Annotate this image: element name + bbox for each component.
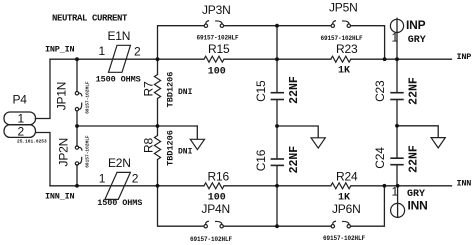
wire mid rail bbox=[77, 125, 197, 127]
wire top rail INP left segment bbox=[50, 58, 204, 60]
wire ground branch at C15C16 node bbox=[277, 126, 318, 138]
svg-text:2: 2 bbox=[18, 124, 25, 138]
svg-text:69157-102HLF: 69157-102HLF bbox=[190, 236, 233, 243]
connector P4 bbox=[4, 112, 36, 137]
node bottom jumper rail C16 column bbox=[275, 224, 279, 228]
svg-text:1: 1 bbox=[392, 185, 399, 199]
jumper JP3N bbox=[204, 21, 223, 28]
jumper JP5N bbox=[331, 21, 350, 28]
capacitor C23 22NF bbox=[390, 93, 403, 100]
capacitor C15 22NF bbox=[271, 93, 284, 100]
svg-text:R7: R7 bbox=[142, 81, 156, 96]
svg-text:DNI: DNI bbox=[178, 147, 193, 156]
svg-text:JP2N: JP2N bbox=[57, 138, 71, 167]
node mid rail C15C16 bbox=[275, 124, 279, 128]
svg-text:E2N: E2N bbox=[108, 156, 131, 170]
node top rail JP1N branch bbox=[75, 57, 79, 61]
svg-text:1500 OHMS: 1500 OHMS bbox=[96, 74, 141, 84]
wire top rail mid segment bbox=[224, 58, 331, 60]
resistor R15 100 bbox=[204, 56, 224, 62]
wire bottom jumper rail bbox=[158, 186, 204, 226]
svg-text:100: 100 bbox=[208, 66, 226, 77]
wire INN testpoint drop bbox=[397, 186, 399, 218]
node bottom rail JP2N branch bbox=[75, 184, 79, 188]
node bottom rail C16 column bbox=[275, 184, 279, 188]
node top rail R7 column bbox=[156, 57, 160, 61]
svg-text:2: 2 bbox=[132, 172, 139, 186]
svg-text:1K: 1K bbox=[338, 66, 350, 77]
svg-text:1: 1 bbox=[99, 44, 106, 58]
node mid rail R7R8 bbox=[156, 124, 160, 128]
wire R7 column stubs bbox=[157, 59, 159, 74]
svg-text:C23: C23 bbox=[373, 80, 387, 102]
svg-text:69157-102HLF: 69157-102HLF bbox=[85, 135, 91, 168]
wire bottom rail right segment bbox=[351, 185, 452, 187]
node bottom rail R8 column bbox=[156, 184, 160, 188]
svg-text:TBD1206: TBD1206 bbox=[165, 72, 175, 108]
wire JP1N vertical upper bbox=[76, 59, 78, 91]
node top rail JP5N drop bbox=[383, 57, 387, 61]
svg-text:C16: C16 bbox=[254, 149, 268, 171]
wire R8 column stubs bbox=[157, 126, 159, 136]
svg-text:22NF: 22NF bbox=[408, 145, 421, 173]
svg-text:INP_IN: INP_IN bbox=[45, 44, 75, 54]
svg-text:TBD1206: TBD1206 bbox=[165, 130, 175, 166]
svg-text:22NF: 22NF bbox=[288, 76, 301, 104]
ground at C23C24 node bbox=[431, 138, 445, 148]
capacitor C16 22NF bbox=[271, 159, 284, 165]
svg-text:C15: C15 bbox=[254, 80, 268, 102]
svg-text:E1N: E1N bbox=[108, 29, 131, 43]
wire C15 column bbox=[276, 26, 278, 92]
svg-text:JP4N: JP4N bbox=[201, 202, 230, 216]
jumper JP2N vertical bbox=[75, 146, 82, 165]
wire C24 column bbox=[396, 126, 398, 158]
svg-text:JP5N: JP5N bbox=[329, 1, 358, 15]
resistor R7 TBD1206 vertical bbox=[154, 75, 160, 99]
svg-text:100: 100 bbox=[208, 193, 226, 204]
svg-text:25.161.0253: 25.161.0253 bbox=[17, 138, 47, 144]
svg-text:INN: INN bbox=[408, 199, 428, 213]
svg-text:R16: R16 bbox=[208, 170, 230, 184]
svg-text:R15: R15 bbox=[208, 42, 230, 56]
svg-text:INP: INP bbox=[457, 52, 472, 62]
resistor R8 TBD1206 vertical bbox=[154, 136, 160, 160]
ferrite bead E2N bbox=[105, 172, 130, 199]
svg-text:22NF: 22NF bbox=[408, 77, 421, 105]
svg-text:1500 OHMS: 1500 OHMS bbox=[97, 198, 142, 208]
svg-text:INN: INN bbox=[457, 179, 472, 189]
svg-text:R8: R8 bbox=[142, 138, 156, 153]
resistor R24 1K bbox=[331, 183, 351, 189]
svg-text:22NF: 22NF bbox=[288, 146, 301, 174]
svg-text:1K: 1K bbox=[338, 192, 350, 203]
svg-text:P4: P4 bbox=[13, 93, 28, 107]
wire JP2N vertical lower bbox=[76, 165, 78, 186]
wire bottom rail mid segment bbox=[224, 185, 331, 187]
jumper JP4N bbox=[204, 221, 223, 228]
wire P4 pin2 dropper bbox=[36, 133, 51, 186]
svg-text:2: 2 bbox=[134, 44, 141, 58]
node bottom rail C24 column bbox=[396, 184, 400, 188]
testpoint INN circle bbox=[391, 203, 405, 217]
jumper JP1N vertical bbox=[75, 92, 82, 111]
svg-text:1: 1 bbox=[392, 31, 399, 45]
svg-text:R24: R24 bbox=[336, 170, 358, 184]
resistor R23 1K bbox=[331, 56, 351, 62]
wire ground branch at R7R8 node bbox=[196, 126, 198, 139]
wire C23 column bbox=[396, 59, 398, 92]
svg-text:GRY: GRY bbox=[408, 35, 426, 46]
svg-text:69157-102HLF: 69157-102HLF bbox=[85, 81, 91, 114]
node mid rail C23C24 bbox=[395, 124, 399, 128]
node top rail C15 column bbox=[275, 57, 279, 61]
ferrite bead E1N bbox=[109, 45, 131, 72]
wire JP1N-JP2N vertical middle bbox=[76, 111, 78, 146]
svg-text:69157-102HLF: 69157-102HLF bbox=[321, 35, 364, 42]
svg-text:R23: R23 bbox=[336, 42, 358, 56]
node bottom rail JP6N riser bbox=[383, 184, 387, 188]
wire INP testpoint drop bbox=[396, 18, 398, 59]
svg-text:69157-102HLF: 69157-102HLF bbox=[323, 235, 366, 242]
wire top jumper rail bbox=[158, 26, 205, 60]
svg-text:DNI: DNI bbox=[178, 88, 193, 97]
svg-text:NEUTRAL CURRENT: NEUTRAL CURRENT bbox=[52, 13, 128, 23]
resistor R16 100 bbox=[204, 183, 224, 189]
ground at R7R8 node bbox=[190, 139, 204, 149]
node top rail C23 column bbox=[395, 57, 399, 61]
wire C16 column bbox=[276, 126, 278, 158]
wire P4 pin1 riser bbox=[36, 59, 51, 118]
svg-text:C24: C24 bbox=[373, 147, 387, 169]
wire top rail right segment bbox=[351, 58, 452, 60]
testpoint INP circle bbox=[390, 19, 403, 32]
wire ground branch at C23C24 node bbox=[397, 126, 438, 138]
svg-text:69157-102HLF: 69157-102HLF bbox=[197, 35, 240, 42]
svg-text:JP3N: JP3N bbox=[202, 3, 231, 17]
wire bottom rail INN left segment bbox=[50, 185, 204, 187]
ground at C15C16 node bbox=[311, 138, 325, 148]
capacitor C24 22NF bbox=[390, 158, 403, 165]
node top jumper rail C15 column bbox=[275, 24, 279, 28]
jumper JP6N bbox=[331, 221, 350, 228]
node mid rail JP1N JP2N bbox=[75, 124, 79, 128]
svg-text:JP6N: JP6N bbox=[332, 202, 361, 216]
svg-text:1: 1 bbox=[99, 172, 106, 186]
svg-text:INN_IN: INN_IN bbox=[45, 191, 75, 201]
svg-text:INP: INP bbox=[406, 18, 426, 32]
svg-text:JP1N: JP1N bbox=[55, 82, 69, 111]
